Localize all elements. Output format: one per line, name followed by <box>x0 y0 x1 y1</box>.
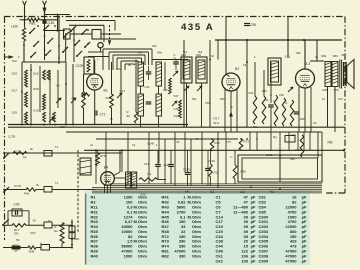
svg-text:S7B: S7B <box>322 88 327 92</box>
svg-text:C.: C. <box>231 155 234 159</box>
svg-text:S19: S19 <box>12 111 18 115</box>
svg-text:C309: C309 <box>259 258 269 263</box>
svg-text:C181: C181 <box>47 21 55 25</box>
svg-text:Ck1: Ck1 <box>144 162 149 166</box>
svg-text:S15: S15 <box>12 72 18 76</box>
svg-text:S7: S7 <box>322 97 326 101</box>
svg-text:C17B: C17B <box>8 135 15 139</box>
svg-text:S17: S17 <box>12 89 18 93</box>
svg-text:47000: 47000 <box>285 258 297 263</box>
svg-text:31a: 31a <box>54 230 59 233</box>
svg-text:9A: 9A <box>127 114 131 118</box>
svg-text:S79: S79 <box>334 88 339 92</box>
svg-text:S5: S5 <box>341 53 345 57</box>
svg-text:C75: C75 <box>226 140 231 144</box>
svg-text:N5b: N5b <box>290 157 295 161</box>
svg-text:R46: R46 <box>24 192 29 196</box>
svg-text:R82: R82 <box>162 253 170 258</box>
svg-text:435 A: 435 A <box>181 22 214 33</box>
svg-text:S83: S83 <box>333 54 339 58</box>
svg-text:pF: pF <box>302 258 307 263</box>
svg-text:R75: R75 <box>100 154 106 158</box>
svg-text:R15: R15 <box>214 171 220 175</box>
svg-text:C: C <box>270 93 272 97</box>
svg-text:Wek: Wek <box>296 148 302 152</box>
svg-text:C92: C92 <box>291 133 296 137</box>
svg-text:S5b: S5b <box>296 51 301 55</box>
svg-text:R14: R14 <box>249 91 254 95</box>
svg-text:C4: C4 <box>132 143 136 147</box>
svg-text:C82: C82 <box>279 93 284 97</box>
svg-text:S4: S4 <box>243 63 247 67</box>
svg-text:R: R <box>55 225 57 229</box>
svg-text:R5b: R5b <box>220 97 225 101</box>
svg-text:S4b: S4b <box>157 51 162 55</box>
svg-text:R: R <box>286 101 288 105</box>
svg-text:S79: S79 <box>338 97 343 101</box>
svg-text:W.A.: W.A. <box>214 121 221 125</box>
svg-text:C105: C105 <box>76 64 84 68</box>
svg-text:C109: C109 <box>208 159 215 163</box>
svg-text:C4: C4 <box>56 84 60 88</box>
svg-text:Ck2: Ck2 <box>216 258 224 263</box>
svg-text:C55: C55 <box>205 101 210 105</box>
svg-text:C45: C45 <box>14 203 20 207</box>
svg-text:Ck2: Ck2 <box>164 163 169 167</box>
svg-text:2A: 2A <box>33 219 37 223</box>
svg-text:S18: S18 <box>33 87 39 91</box>
svg-text:C140: C140 <box>147 142 155 146</box>
svg-text:RM: RM <box>328 141 333 145</box>
svg-text:3b2: 3b2 <box>210 190 215 194</box>
svg-text:S4b: S4b <box>152 44 157 48</box>
svg-text:B4: B4 <box>104 166 108 170</box>
svg-text:R4b: R4b <box>185 190 190 194</box>
svg-text:C98: C98 <box>250 23 256 27</box>
svg-text:S2b: S2b <box>116 67 121 71</box>
svg-text:C4b: C4b <box>163 88 168 92</box>
svg-text:Ohm: Ohm <box>138 253 148 258</box>
svg-text:B1: B1 <box>104 89 108 93</box>
svg-text:C17: C17 <box>120 89 126 93</box>
svg-text:C6: C6 <box>72 96 76 100</box>
svg-text:WnB: WnB <box>29 249 35 253</box>
svg-text:pF: pF <box>251 258 256 263</box>
svg-text:C72: C72 <box>100 113 106 117</box>
svg-text:R40: R40 <box>91 253 99 258</box>
svg-text:R1B: R1B <box>74 237 79 241</box>
svg-text:S37: S37 <box>174 94 179 98</box>
svg-text:S16: S16 <box>33 72 39 76</box>
svg-text:S33: S33 <box>174 114 179 118</box>
svg-text:C: C <box>174 53 176 57</box>
svg-text:R81: R81 <box>30 22 36 26</box>
svg-text:Rg: Rg <box>273 135 277 139</box>
svg-text:C.: C. <box>256 137 259 141</box>
svg-text:330: 330 <box>179 253 186 258</box>
svg-text:S'19: S'19 <box>33 109 39 113</box>
svg-text:51: 51 <box>174 57 177 61</box>
svg-text:5k1: 5k1 <box>183 50 188 54</box>
svg-text:S4b: S4b <box>138 51 143 55</box>
svg-text:C10B: C10B <box>266 153 273 157</box>
svg-text:C179: C179 <box>14 184 21 188</box>
svg-text:57k: 57k <box>14 232 19 236</box>
svg-text:R4: R4 <box>23 156 27 160</box>
svg-text:C8: C8 <box>176 140 180 144</box>
svg-text:R2: R2 <box>129 173 133 177</box>
svg-text:L100: L100 <box>11 25 18 29</box>
svg-text:R47: R47 <box>31 231 37 235</box>
svg-text:S19: S19 <box>60 125 65 129</box>
svg-text:R58: R58 <box>241 170 247 174</box>
svg-text:1000: 1000 <box>124 253 134 258</box>
svg-text:Ohm: Ohm <box>192 253 202 258</box>
svg-text:R9b: R9b <box>300 117 305 121</box>
svg-text:C4b: C4b <box>145 85 150 89</box>
svg-text:5k2: 5k2 <box>198 50 203 54</box>
svg-text:S.51: S.51 <box>285 55 291 59</box>
svg-text:C101: C101 <box>183 168 191 172</box>
svg-text:B.3: B.3 <box>305 62 310 66</box>
svg-text:R71: R71 <box>215 141 221 145</box>
svg-text:B2: B2 <box>235 67 239 71</box>
svg-text:4bb: 4bb <box>270 190 275 194</box>
svg-text:S81: S81 <box>321 54 327 58</box>
svg-text:S13: S13 <box>12 59 17 63</box>
svg-text:109: 109 <box>241 258 248 263</box>
svg-text:C9: C9 <box>313 121 317 125</box>
svg-text:WA: WA <box>253 125 257 129</box>
svg-text:50k: 50k <box>192 97 197 101</box>
svg-text:1bB: 1bB <box>240 190 245 194</box>
svg-text:R56: R56 <box>262 89 267 93</box>
svg-text:R73: R73 <box>244 140 250 144</box>
svg-text:R1: R1 <box>148 172 152 176</box>
svg-text:F5.T: F5.T <box>214 117 220 121</box>
